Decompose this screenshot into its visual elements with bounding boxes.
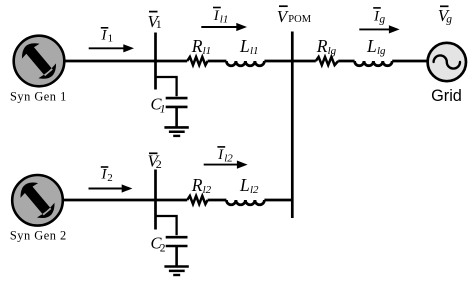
- wire: stub from V2 bus down to capacitor C2: [156, 216, 177, 235]
- current arrow I2: [89, 184, 133, 192]
- svg-text:1: 1: [108, 32, 114, 44]
- svg-text:g: g: [446, 13, 452, 25]
- label V_POM (bar V sub POM): [277, 6, 312, 26]
- svg-text:R: R: [316, 36, 328, 56]
- svg-text:l1: l1: [203, 45, 212, 57]
- capacitor C1: [166, 98, 188, 127]
- ground (below C1): [164, 127, 188, 135]
- svg-text:I: I: [217, 147, 224, 163]
- ground (below C2): [164, 267, 188, 276]
- svg-text:I: I: [213, 8, 220, 24]
- svg-text:Syn Gen 2: Syn Gen 2: [10, 229, 67, 243]
- label Rl2: [191, 175, 212, 196]
- capacitor C2: [166, 237, 188, 266]
- svg-text:1: 1: [160, 103, 166, 115]
- svg-text:g: g: [379, 14, 385, 26]
- current arrow I1: [89, 44, 134, 52]
- label Il1 (bar I sub l1): [213, 8, 229, 26]
- label I2 (bar I sub 2): [101, 167, 113, 185]
- svg-text:l1: l1: [220, 13, 229, 25]
- svg-text:l2: l2: [250, 184, 259, 196]
- svg-text:lg: lg: [377, 45, 386, 57]
- svg-text:1: 1: [156, 17, 162, 31]
- svg-text:POM: POM: [288, 14, 311, 25]
- label Rl1: [191, 36, 211, 57]
- inductor Ll2: [226, 200, 264, 205]
- label C2: [151, 234, 166, 255]
- resistor Rl1: [187, 57, 207, 65]
- svg-text:lg: lg: [328, 45, 337, 57]
- label Ig (bar I sub g): [373, 8, 385, 26]
- svg-text:R: R: [191, 175, 203, 195]
- svg-text:L: L: [239, 175, 250, 195]
- svg-text:2: 2: [156, 157, 162, 171]
- node V2 bus bar: [154, 170, 157, 230]
- svg-text:L: L: [366, 36, 377, 56]
- AC source: Grid: [428, 43, 466, 81]
- svg-text:I: I: [101, 27, 108, 43]
- svg-text:Syn Gen 1: Syn Gen 1: [10, 90, 67, 104]
- svg-text:L: L: [239, 36, 250, 56]
- svg-text:l2: l2: [203, 184, 212, 196]
- label Llg: [366, 36, 386, 57]
- current arrow Ig: [359, 25, 399, 33]
- generator G2 (Syn Gen 2) circle: [12, 175, 63, 226]
- label I1 (bar I sub 1): [101, 27, 114, 44]
- svg-text:2: 2: [160, 243, 166, 255]
- wire: generator 2 to V_POM bus (row 2 main line segments): [62, 199, 294, 202]
- label Ll2: [239, 175, 259, 196]
- wire: stub from V1 bus down to capacitor C1: [156, 77, 177, 96]
- current arrow Il2: [204, 161, 248, 169]
- svg-text:l1: l1: [250, 45, 259, 57]
- current arrow Il1: [201, 23, 247, 31]
- label V1 (bar V sub 1): [148, 12, 162, 31]
- svg-text:Grid: Grid: [431, 87, 462, 105]
- label V2 (bar V sub 2): [148, 151, 162, 171]
- resistor Rl2: [187, 196, 207, 204]
- svg-text:R: R: [191, 36, 203, 56]
- node V1 bus bar: [154, 33, 157, 90]
- label C1: [151, 95, 166, 116]
- wire: generator 1 to grid (row 1 main line segments): [63, 60, 428, 63]
- inductor Ll1: [226, 61, 264, 66]
- node V_POM bus bar: [291, 32, 294, 219]
- label Ll1: [239, 36, 259, 57]
- label Rlg: [316, 36, 337, 57]
- svg-text:2: 2: [107, 172, 113, 184]
- resistor Rlg: [316, 57, 338, 65]
- label Il2 (bar I sub l2): [217, 147, 233, 165]
- svg-text:l2: l2: [224, 153, 233, 165]
- label Vg (bar V sub g): [438, 6, 453, 25]
- generator G1 (Syn Gen 1) circle: [14, 36, 65, 87]
- inductor Llg: [355, 61, 393, 66]
